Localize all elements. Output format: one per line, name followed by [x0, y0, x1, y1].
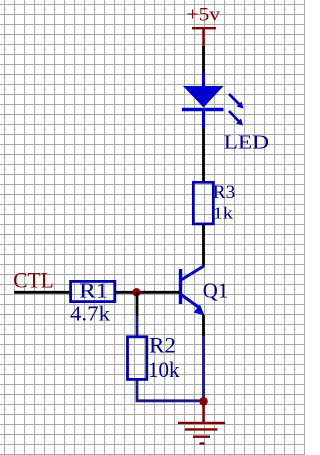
resistor R2 body: [128, 337, 147, 380]
svg-text:R3: R3: [213, 183, 236, 203]
wire LED to R3: [202, 129, 205, 181]
ground stem: [202, 401, 205, 422]
svg-text:+5v: +5v: [187, 6, 221, 26]
power +5v bar: [192, 27, 216, 29]
svg-text:R2: R2: [149, 332, 176, 357]
wire power to LED: [202, 46, 205, 74]
ground bar 3: [193, 436, 210, 438]
ground bar 1: [178, 422, 225, 424]
resistor R1 body: [71, 281, 115, 301]
junction node ground: [199, 397, 208, 406]
svg-text:LED: LED: [224, 131, 270, 153]
svg-text:CTL: CTL: [13, 268, 54, 293]
power +5v stem: [202, 28, 205, 46]
wire CTL to R1: [14, 291, 69, 294]
svg-text:10k: 10k: [148, 357, 180, 382]
ground bar 4: [200, 442, 205, 444]
LED light arrow 1: [229, 94, 244, 109]
LED light arrow 2: [229, 111, 243, 126]
ground bar 2: [185, 428, 218, 430]
LED D1 cathode lead: [202, 110, 205, 130]
transistor Q1 emitter line: [181, 295, 199, 308]
svg-text:R1: R1: [79, 279, 108, 303]
svg-text:1k: 1k: [213, 203, 234, 222]
wire R3 to Q1 collector: [202, 225, 205, 267]
wire R2 to ground junction: [137, 381, 204, 401]
junction node base/R2: [132, 288, 140, 296]
transistor Q1 collector line: [181, 266, 204, 280]
svg-text:Q1: Q1: [203, 278, 229, 302]
wire Q1 emitter down: [202, 315, 205, 336]
wire R1 to Q1 base: [116, 291, 180, 294]
LED D1 triangle: [183, 86, 224, 108]
transistor Q1 emitter arrowhead: [194, 305, 205, 316]
wire junction to R2: [136, 292, 139, 316]
resistor R3 body: [193, 182, 213, 224]
LED D1 cathode bar: [182, 108, 224, 111]
LED D1 anode lead: [202, 73, 205, 87]
svg-text:4.7k: 4.7k: [70, 302, 110, 326]
transistor Q1 base bar: [179, 269, 182, 304]
